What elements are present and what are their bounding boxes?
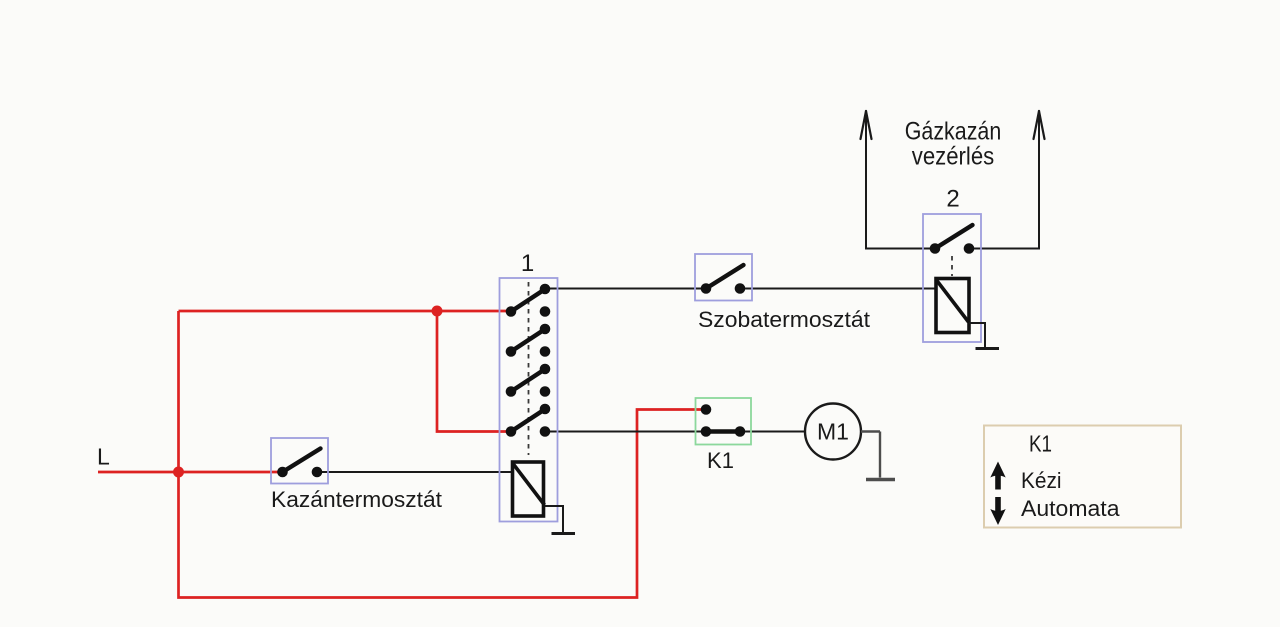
svg-text:Kézi: Kézi bbox=[1021, 468, 1062, 493]
svg-text:M1: M1 bbox=[817, 419, 849, 445]
svg-text:Szobatermosztát: Szobatermosztát bbox=[698, 307, 870, 332]
svg-text:Gázkazán: Gázkazán bbox=[905, 118, 1002, 146]
svg-text:L: L bbox=[97, 444, 110, 470]
svg-text:K1: K1 bbox=[1029, 431, 1052, 457]
svg-text:Automata: Automata bbox=[1021, 496, 1120, 521]
svg-text:2: 2 bbox=[946, 186, 959, 213]
svg-text:K1: K1 bbox=[707, 448, 734, 473]
svg-text:Kazántermosztát: Kazántermosztát bbox=[271, 487, 442, 512]
svg-text:vezérlés: vezérlés bbox=[912, 143, 995, 171]
svg-text:1: 1 bbox=[521, 250, 534, 277]
